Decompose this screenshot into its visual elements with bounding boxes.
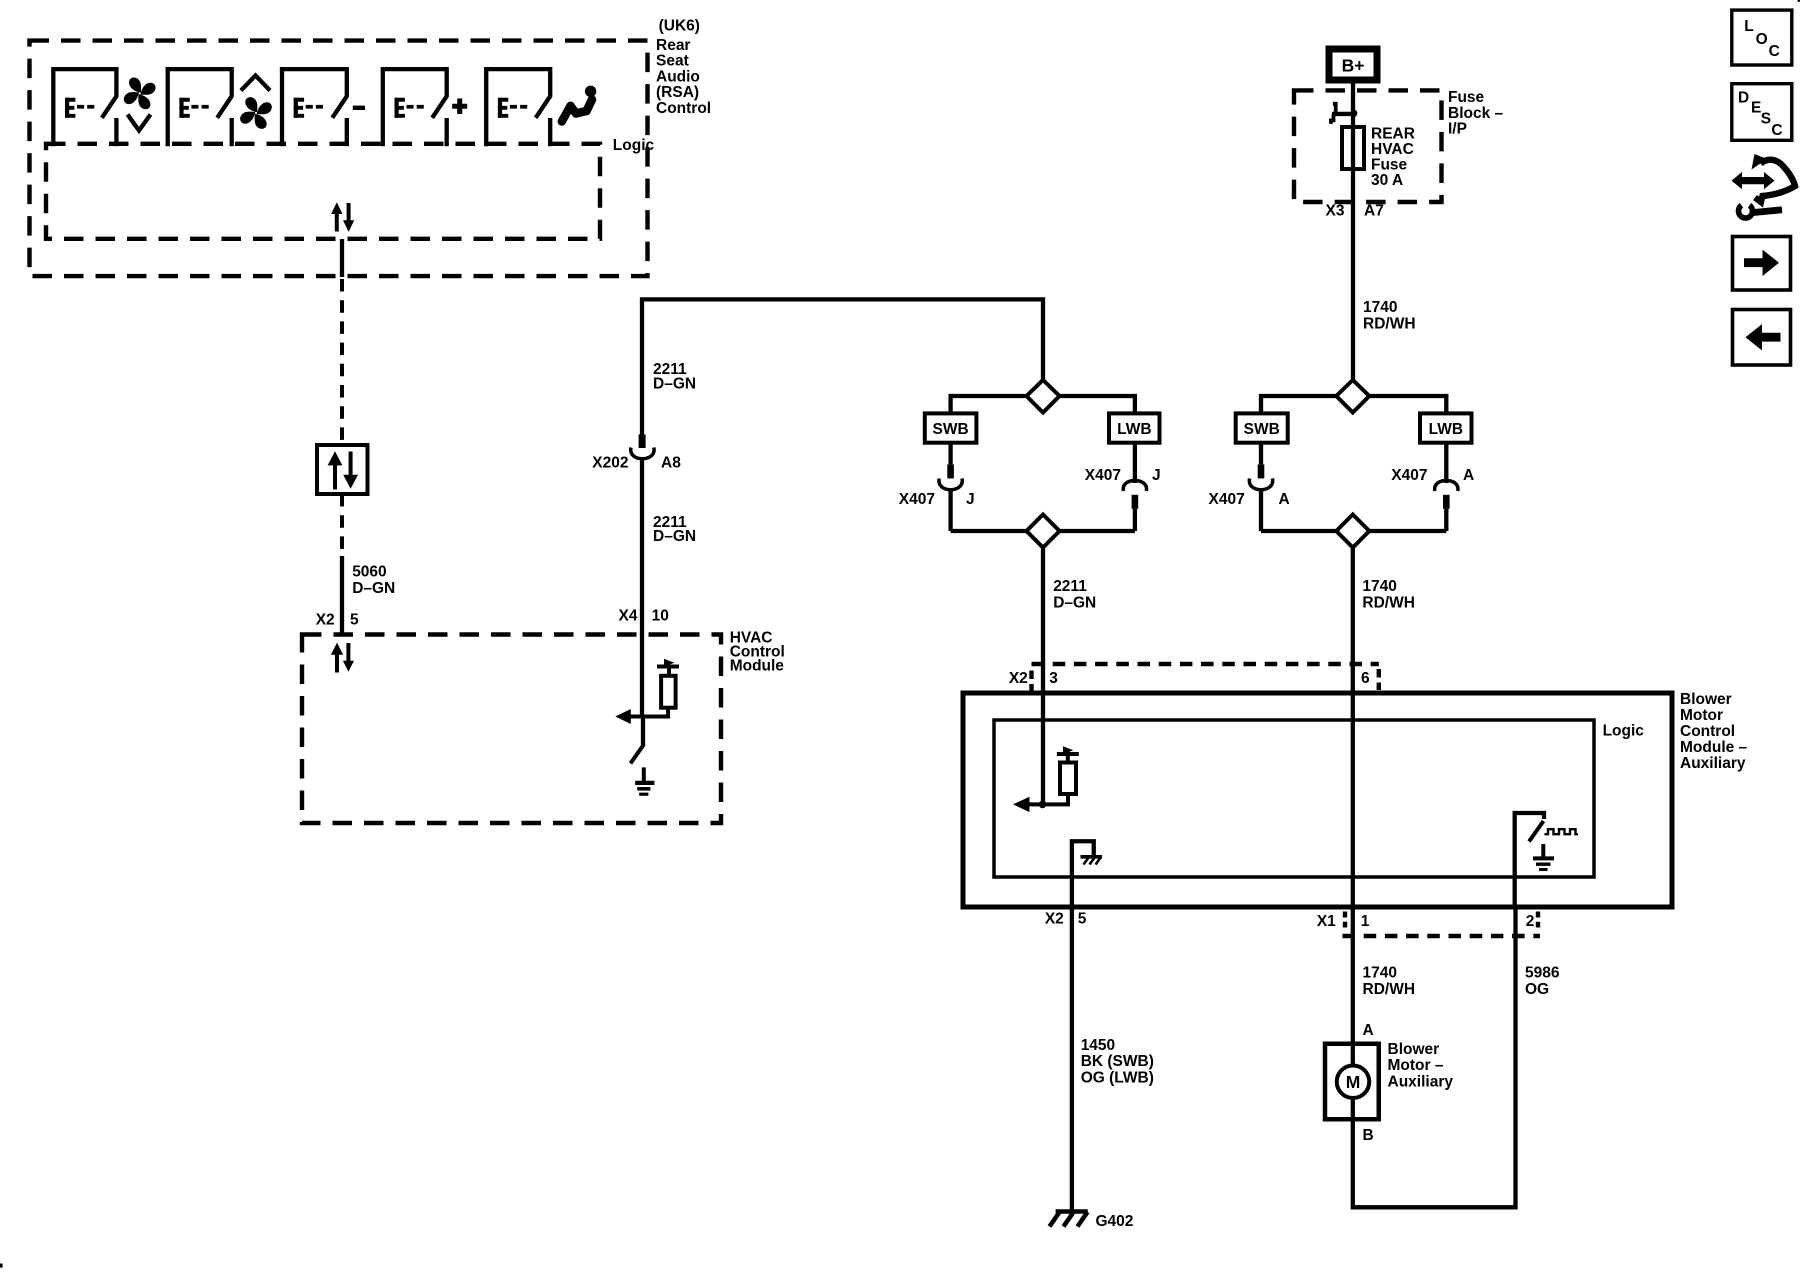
svg-text:SWB: SWB [1244,421,1280,438]
label 1740 RD/WH (motor feed) [1363,965,1416,998]
resistor (blower module) [1060,763,1076,795]
connector X407 A (right pair, SWB side) [1249,443,1272,531]
wire 2211 D-GN to blower module [1041,548,1045,694]
wire 5060 upper (solid inside RSA, dashed below) [340,239,344,277]
svg-text:A8: A8 [661,455,681,472]
svg-text:1450: 1450 [1081,1037,1115,1054]
wire to SWB (left pair) [951,396,1027,413]
switch S1 (SW1 fan down) [51,67,117,146]
junction dot (fuse feed) [1350,110,1357,117]
bottom wires + junction diamond (left pair) [951,529,1027,533]
pin X2 5 (module bottom) [1045,911,1087,928]
svg-text:X3: X3 [1326,202,1345,219]
stray mark bottom left [0,1264,3,1268]
option box SWB (left pair) [925,413,977,442]
HVAC internal: resistor [661,676,676,708]
chassis ground symbol (logic) [1081,857,1103,865]
label Blower Motor - Auxiliary [1388,1041,1454,1091]
icon: seat occupant (S5) [562,86,597,122]
module box: HVAC Control Module (dashed) [302,635,721,824]
switch S4 (SW4 plus) [381,67,447,146]
svg-text:HVAC: HVAC [1371,141,1414,158]
switch S5 (SW5 seat) [484,67,551,146]
svg-text:1740: 1740 [1363,965,1397,982]
svg-text:Fuse: Fuse [1371,157,1408,174]
pull-up supply T-bar (blower module) [1057,746,1079,762]
svg-text:Rear: Rear [656,37,690,54]
svg-text:X2: X2 [1045,911,1064,928]
svg-text:Auxiliary: Auxiliary [1680,755,1746,772]
svg-text:Motor –: Motor – [1388,1057,1444,1074]
logic switch to PWM ground (right) [1515,813,1544,907]
connector X202 terminal [639,435,646,449]
label 2211 D-GN (lower) [653,514,696,545]
svg-text:Blower: Blower [1388,1041,1440,1058]
svg-text:5: 5 [350,612,359,629]
svg-text:1740: 1740 [1363,299,1397,316]
wire 2211 inside module [1041,693,1045,804]
svg-text:Seat: Seat [656,53,689,70]
wire B+ to fuse [1351,83,1355,127]
chassis ground branch (X2-5) [1072,841,1094,1211]
svg-text:X407: X407 [899,491,935,508]
svg-text:A: A [1279,491,1290,508]
svg-text:REAR: REAR [1371,125,1415,142]
label 5060 D-GN [352,564,395,598]
svg-text:X202: X202 [592,455,628,472]
option box LWB (right pair) [1420,413,1472,442]
label 2211 D-GN (upper) [653,361,696,392]
svg-text:2211: 2211 [1053,578,1087,595]
svg-text:X2: X2 [1009,670,1028,687]
svg-text:Module: Module [730,658,785,675]
svg-text:(RSA): (RSA) [656,84,699,101]
svg-text:30 A: 30 A [1371,172,1403,189]
harness connector X2 bracket (dashed) [1032,662,1379,666]
svg-text:OG: OG [1525,981,1549,998]
svg-text:B: B [1363,1127,1374,1144]
connector X407 J (left pair, LWB side) [1123,443,1146,531]
signal ground (logic right) [1533,844,1554,870]
nav icon arrow left [1733,310,1791,366]
svg-text:S: S [1761,110,1771,127]
svg-text:Control: Control [656,100,711,117]
serial data link box [317,445,368,494]
logic box (blower module) [994,720,1594,877]
labels X202 A8 [592,455,681,472]
wire 1740 RD/WH to blower module [1351,548,1355,694]
svg-text:J: J [1152,467,1161,484]
svg-text:I/P: I/P [1448,121,1467,138]
icon: up chevron with fan (S2) [239,76,273,131]
svg-text:Logic: Logic [613,137,655,154]
serial data arrows (RSA logic) [331,202,354,232]
label Fuse Block - I/P [1448,89,1504,138]
connector X407 A (right pair, LWB side) [1435,443,1458,531]
wire 5060 D-GN to HVAC module [340,494,344,556]
wire 1740 through module [1351,693,1355,1065]
svg-text:5986: 5986 [1525,965,1560,982]
icon: fan with down chevron (S1) [123,76,157,130]
svg-text:Blower: Blower [1680,691,1732,708]
svg-text:OG (LWB): OG (LWB) [1081,1070,1154,1087]
svg-text:1740: 1740 [1362,578,1396,595]
label Logic (blower module) [1603,723,1645,740]
svg-text:5: 5 [1078,911,1087,928]
stray mark top right [1798,0,1800,2]
label Blower Motor Control Module - Auxiliary [1680,691,1748,772]
PWM square wave [1545,829,1579,834]
pin A (motor) [1363,1022,1374,1039]
label HVAC Control Module [730,630,785,675]
connector X202 arc [631,448,654,459]
nav icon LOC [1732,10,1792,65]
power feed B+ [1329,49,1377,80]
svg-text:BK (SWB): BK (SWB) [1081,1053,1154,1070]
svg-text:B+: B+ [1342,55,1365,75]
module box: Rear Seat Audio (RSA) Control (dashed) [30,41,648,277]
wire to LWB (right pair) [1369,396,1446,413]
junction diamond (left pair, top) [1027,380,1060,413]
svg-text:RD/WH: RD/WH [1362,594,1415,611]
svg-text:X2: X2 [316,612,335,629]
svg-text:(UK6): (UK6) [659,18,700,35]
svg-text:L: L [1744,18,1753,35]
svg-text:C: C [1769,43,1780,60]
HVAC internal: output arrow left [615,709,631,724]
option box LWB (left pair) [1109,413,1160,442]
pin X3 A7 [1326,202,1384,219]
svg-text:LWB: LWB [1117,421,1151,438]
bottom wires + junction diamond (right pair) [1261,529,1336,533]
svg-text:X4: X4 [619,608,638,625]
fuse REAR HVAC 30A [1342,127,1364,169]
option box SWB (right pair) [1236,413,1288,442]
pin X2 5 (HVAC) [316,612,359,629]
connector X407 J (left pair, SWB side) [939,443,962,531]
svg-text:G402: G402 [1096,1213,1134,1230]
switch S3 (SW3 minus) [280,67,347,146]
svg-text:Auxiliary: Auxiliary [1388,1073,1454,1090]
svg-text:Control: Control [1680,723,1735,740]
svg-text:X407: X407 [1085,467,1121,484]
module box: Fuse Block - I/P (dashed) [1294,90,1442,202]
junction diamond (right pair, top) [1336,380,1369,413]
svg-text:3: 3 [1049,670,1058,687]
svg-text:A: A [1363,1022,1374,1039]
pin X4 10 [619,608,669,625]
svg-text:Logic: Logic [1603,723,1645,740]
svg-text:X407: X407 [1208,491,1244,508]
svg-text:10: 10 [652,608,669,625]
svg-text:D–GN: D–GN [352,580,395,597]
svg-text:Block –: Block – [1448,105,1504,122]
HVAC internal: signal ground [635,767,654,794]
svg-text:6: 6 [1361,670,1370,687]
icon: minus (S3) [353,106,365,110]
svg-text:D–GN: D–GN [1053,594,1096,611]
svg-text:A7: A7 [1364,202,1384,219]
wire 1740 RD/WH to diamond [1351,169,1355,380]
svg-text:2: 2 [1526,913,1535,930]
svg-text:D–GN: D–GN [653,375,696,392]
svg-text:SWB: SWB [933,421,969,438]
svg-text:X407: X407 [1391,467,1427,484]
nav icon wrench with arrows [1732,154,1796,218]
switch S2 (SW2 fan up) [166,67,233,146]
HVAC internal: switch blade to ground [641,717,645,746]
svg-text:Audio: Audio [656,69,700,86]
motor M circle [1337,1066,1370,1099]
svg-text:D: D [1738,89,1749,106]
bus tap hook [1333,104,1336,112]
wire motor B to 5986 return [1353,907,1516,1207]
wire to SWB (right pair) [1261,396,1336,413]
svg-text:Motor: Motor [1680,707,1723,724]
svg-text:1: 1 [1361,913,1370,930]
harness connector X1 bracket (dashed) [1343,934,1541,938]
wire through fuse [1351,127,1355,169]
svg-text:M: M [1346,1072,1361,1092]
svg-text:Fuse: Fuse [1448,89,1485,106]
svg-text:J: J [966,491,975,508]
module box: Blower Motor Control Module - Auxiliary [963,693,1672,907]
blower motor box [1325,1044,1379,1120]
svg-text:RD/WH: RD/WH [1363,316,1416,333]
svg-text:X1: X1 [1317,913,1336,930]
wire to LWB (left pair) [1060,396,1135,413]
label Logic (RSA) [613,137,655,154]
pin B (motor) [1363,1127,1374,1144]
svg-text:O: O [1756,31,1768,48]
wire 2211 D-GN X202 to HVAC [640,461,644,717]
svg-text:RD/WH: RD/WH [1363,981,1416,998]
svg-text:C: C [1771,122,1782,139]
logic box (dashed) inside RSA control [46,144,600,239]
svg-text:A: A [1463,467,1474,484]
input arrow left [1029,802,1043,806]
ground G402 [1050,1212,1088,1227]
nav icon DESC [1732,84,1792,141]
HVAC internal: pull-up supply T-bar [657,659,679,676]
svg-text:Module –: Module – [1680,739,1748,756]
wire 2211 D-GN: corner run to option diamonds [642,299,1043,434]
svg-text:D–GN: D–GN [653,528,696,545]
svg-text:LWB: LWB [1429,421,1463,438]
serial data arrows (HVAC) [331,643,354,673]
svg-text:5060: 5060 [352,564,386,581]
label 5986 OG [1525,965,1560,998]
label 1450 BK (SWB) OG (LWB) [1081,1037,1154,1087]
icon: plus (S4) [452,99,467,115]
nav icon arrow right [1733,237,1791,291]
label (UK6) Rear Seat Audio (RSA) Control [656,18,711,118]
junction dot [1039,801,1047,809]
